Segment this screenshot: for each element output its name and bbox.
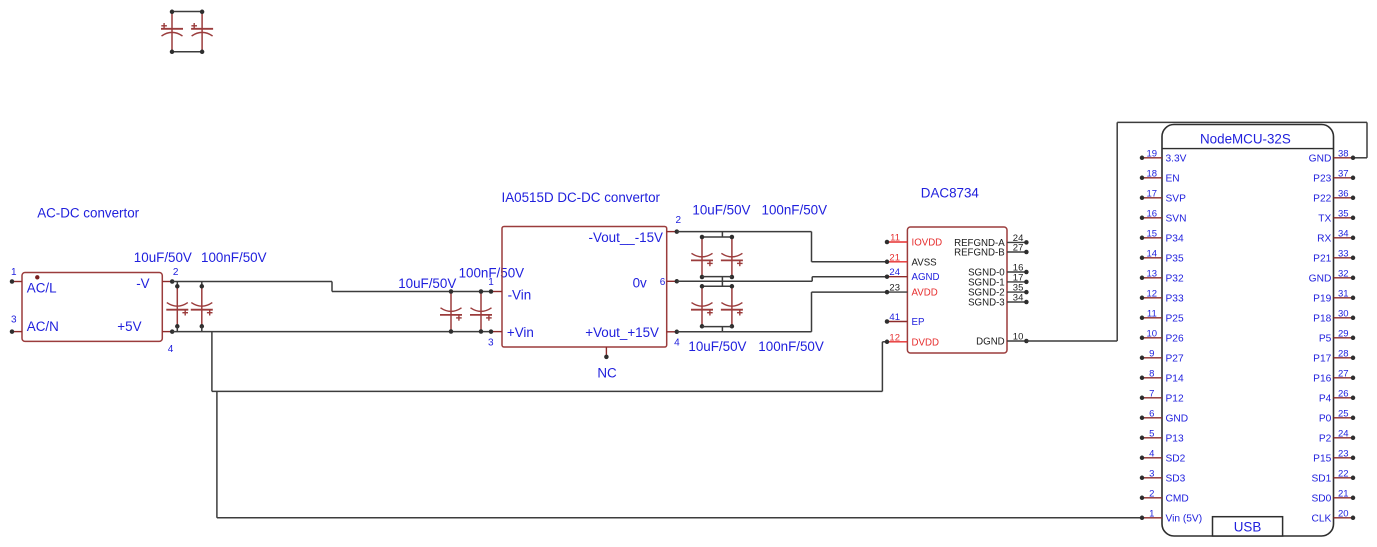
wire orphan bottom xyxy=(172,51,202,53)
svg-text:NodeMCU-32S: NodeMCU-32S xyxy=(1200,131,1291,146)
pin 23 P15 of U4 xyxy=(1313,448,1355,464)
capacitor C3 10uF/50V xyxy=(166,284,188,329)
svg-text:AVSS: AVSS xyxy=(912,257,938,268)
capacitor C7 10uF/50V xyxy=(691,235,713,280)
svg-text:11: 11 xyxy=(1147,308,1157,319)
wire net +5V bottom run xyxy=(212,390,883,392)
pin 11 IOVDD of U3 xyxy=(885,233,942,249)
wire C7/C8 bottom bus xyxy=(702,276,732,278)
svg-text:12: 12 xyxy=(1147,288,1158,299)
svg-text:25: 25 xyxy=(1338,408,1349,419)
pin 27 REFGND-B of U3 xyxy=(954,243,1029,259)
pin 16 SVN of U4 xyxy=(1140,208,1187,224)
pin 30 P18 of U4 xyxy=(1313,308,1355,324)
svg-text:6: 6 xyxy=(1149,408,1154,419)
DC-DC convertor U2 box xyxy=(502,227,667,348)
wire net -15V drop xyxy=(811,232,813,262)
svg-text:34: 34 xyxy=(1013,293,1024,304)
svg-text:AC/N: AC/N xyxy=(27,319,59,334)
svg-text:USB: USB xyxy=(1234,519,1262,534)
svg-text:3: 3 xyxy=(488,338,494,349)
wire net DGND top run xyxy=(1117,121,1367,123)
svg-text:IOVDD: IOVDD xyxy=(912,238,943,249)
svg-text:2: 2 xyxy=(1149,488,1154,499)
wire net -15V run xyxy=(677,231,812,233)
svg-text:10: 10 xyxy=(1147,328,1158,339)
svg-text:38: 38 xyxy=(1338,148,1349,159)
svg-text:RX: RX xyxy=(1317,233,1331,244)
pin 35 SGND-2 of U3 xyxy=(968,283,1029,299)
capacitor C10 100nF/50V xyxy=(721,284,743,329)
svg-text:DAC8734: DAC8734 xyxy=(921,186,980,201)
capacitor C9 10uF/50V xyxy=(691,284,713,329)
svg-text:37: 37 xyxy=(1338,168,1349,179)
svg-text:EN: EN xyxy=(1166,173,1180,184)
pin 10 P26 of U4 xyxy=(1140,328,1184,344)
pin 24 REFGND-A of U3 xyxy=(954,233,1029,249)
svg-text:P22: P22 xyxy=(1313,193,1331,204)
svg-text:24: 24 xyxy=(1338,428,1349,439)
svg-text:27: 27 xyxy=(1013,243,1024,254)
pin 4 SD2 of U4 xyxy=(1140,448,1186,464)
wire net +5V rail xyxy=(172,331,491,333)
svg-text:Vin (5V): Vin (5V) xyxy=(1166,513,1203,524)
svg-text:SVP: SVP xyxy=(1166,193,1187,204)
pin 25 P0 of U4 xyxy=(1319,408,1355,424)
svg-text:1: 1 xyxy=(11,267,17,278)
USB connector box of U4 xyxy=(1213,517,1283,536)
svg-text:P32: P32 xyxy=(1166,273,1184,284)
svg-text:SD0: SD0 xyxy=(1311,493,1331,504)
svg-text:AC-DC convertor: AC-DC convertor xyxy=(37,205,139,220)
wire net +15V run xyxy=(677,331,812,333)
svg-text:P15: P15 xyxy=(1313,453,1331,464)
svg-text:34: 34 xyxy=(1338,228,1349,239)
svg-text:27: 27 xyxy=(1338,368,1349,379)
svg-text:DVDD: DVDD xyxy=(912,337,939,348)
svg-text:5: 5 xyxy=(1149,428,1154,439)
svg-text:18: 18 xyxy=(1147,168,1158,179)
svg-text:11: 11 xyxy=(890,233,900,244)
svg-text:41: 41 xyxy=(889,312,900,323)
wire net +5V drop xyxy=(211,332,213,392)
svg-text:3.3V: 3.3V xyxy=(1166,153,1187,164)
wire C7/C8 top tick xyxy=(721,232,723,237)
pin 2 CMD of U4 xyxy=(1140,488,1189,504)
svg-text:17: 17 xyxy=(1147,188,1158,199)
svg-text:28: 28 xyxy=(1338,348,1349,359)
svg-text:P34: P34 xyxy=(1166,233,1184,244)
pin 28 P17 of U4 xyxy=(1313,348,1355,364)
svg-text:2: 2 xyxy=(173,267,179,278)
svg-text:SD2: SD2 xyxy=(1166,453,1186,464)
wire C4 top tick xyxy=(201,282,203,287)
pin 27 P16 of U4 xyxy=(1313,368,1355,384)
svg-text:2: 2 xyxy=(676,215,682,226)
pin 14 P35 of U4 xyxy=(1140,248,1184,264)
svg-text:-V: -V xyxy=(136,276,149,291)
svg-text:24: 24 xyxy=(889,267,900,278)
svg-text:REFGND-B: REFGND-B xyxy=(954,248,1005,259)
svg-text:GND: GND xyxy=(1309,273,1332,284)
wire C7/C8 bottom tick xyxy=(721,277,723,282)
pin 10 DGND of U3 xyxy=(976,332,1028,348)
pin 16 SGND-0 of U3 xyxy=(968,263,1029,279)
svg-text:4: 4 xyxy=(1149,448,1154,459)
svg-text:P21: P21 xyxy=(1313,253,1331,264)
svg-text:100nF/50V: 100nF/50V xyxy=(201,250,267,265)
svg-text:32: 32 xyxy=(1338,268,1349,279)
svg-text:9: 9 xyxy=(1149,348,1154,359)
DAC8734 U3 box xyxy=(907,227,1007,353)
wire net +5V into DVDD xyxy=(882,341,887,343)
svg-text:P16: P16 xyxy=(1313,373,1331,384)
pin 13 P32 of U4 xyxy=(1140,268,1184,284)
svg-text:P5: P5 xyxy=(1319,333,1332,344)
svg-text:7: 7 xyxy=(1149,388,1154,399)
wire net DGND run xyxy=(1026,340,1117,342)
NodeMCU-32S U4 box xyxy=(1162,125,1334,537)
svg-text:26: 26 xyxy=(1338,388,1349,399)
pin 23 AVDD of U3 xyxy=(885,283,938,299)
svg-text:10: 10 xyxy=(1013,332,1024,343)
pin 37 P23 of U4 xyxy=(1313,168,1355,184)
svg-text:-Vout__-15V: -Vout__-15V xyxy=(589,230,664,245)
svg-text:P14: P14 xyxy=(1166,373,1184,384)
capacitor C6 100nF/50V xyxy=(470,289,492,334)
pin 1 AC/L of U1 xyxy=(10,267,57,296)
wire C3 bottom tick xyxy=(176,326,178,331)
capacitor C2 (orphan right) xyxy=(191,10,213,55)
pin 18 EN of U4 xyxy=(1140,168,1180,184)
pin 17 SVP of U4 xyxy=(1140,188,1186,204)
svg-text:CLK: CLK xyxy=(1311,513,1331,524)
pin 3 SD3 of U4 xyxy=(1140,468,1186,484)
svg-text:8: 8 xyxy=(1149,368,1154,379)
pin 12 DVDD of U3 xyxy=(885,332,939,348)
pin 35 TX of U4 xyxy=(1318,208,1355,224)
svg-text:0v: 0v xyxy=(633,276,647,291)
pin 36 P22 of U4 xyxy=(1313,188,1355,204)
capacitor C4 100nF/50V xyxy=(191,284,213,329)
svg-text:P0: P0 xyxy=(1319,413,1332,424)
pin 5 P13 of U4 xyxy=(1140,428,1184,444)
svg-text:P33: P33 xyxy=(1166,293,1184,304)
wire C9/C10 top tick xyxy=(721,281,723,286)
pin 31 P19 of U4 xyxy=(1313,288,1355,304)
wire net 0v jog xyxy=(811,277,813,282)
svg-text:13: 13 xyxy=(1147,268,1158,279)
wire net DGND right drop xyxy=(1366,122,1368,157)
pin 20 CLK of U4 xyxy=(1311,508,1355,524)
pin 11 P25 of U4 xyxy=(1140,308,1184,324)
svg-text:TX: TX xyxy=(1318,213,1331,224)
capacitor C8 100nF/50V xyxy=(721,235,743,280)
wire orphan top xyxy=(172,11,202,13)
wire net 0v to AGND xyxy=(812,276,887,278)
wire C4 bottom tick xyxy=(201,326,203,331)
svg-text:P17: P17 xyxy=(1313,353,1331,364)
svg-text:1: 1 xyxy=(1149,508,1154,519)
svg-text:-Vin: -Vin xyxy=(508,287,532,302)
svg-text:P27: P27 xyxy=(1166,353,1184,364)
svg-text:20: 20 xyxy=(1338,508,1349,519)
svg-text:P25: P25 xyxy=(1166,313,1184,324)
svg-text:3: 3 xyxy=(11,314,17,325)
svg-text:P19: P19 xyxy=(1313,293,1331,304)
svg-text:P13: P13 xyxy=(1166,433,1184,444)
svg-text:1: 1 xyxy=(488,277,494,288)
svg-text:P35: P35 xyxy=(1166,253,1184,264)
pin 6 0v of U2 xyxy=(633,276,679,291)
wire net Vin5V drop xyxy=(216,391,218,517)
svg-text:P26: P26 xyxy=(1166,333,1184,344)
svg-text:NC: NC xyxy=(597,365,617,380)
pin 4 +Vout of U2 xyxy=(585,325,680,348)
svg-text:22: 22 xyxy=(1338,468,1349,479)
svg-text:15: 15 xyxy=(1147,228,1158,239)
AC-DC convertor U1 box xyxy=(22,273,162,342)
pin 12 P33 of U4 xyxy=(1140,288,1184,304)
wire net DGND riser xyxy=(1116,122,1118,341)
wire C9/C10 top bus xyxy=(702,285,732,287)
svg-text:SD3: SD3 xyxy=(1166,473,1186,484)
svg-text:GND: GND xyxy=(1166,413,1189,424)
pin 17 SGND-1 of U3 xyxy=(968,272,1029,288)
wire net +15V rise xyxy=(811,292,813,332)
svg-text:21: 21 xyxy=(1338,488,1349,499)
wire net -V segment a xyxy=(172,281,332,283)
svg-text:SD1: SD1 xyxy=(1311,473,1331,484)
pin 24 AGND of U3 xyxy=(885,267,940,283)
pin 1 Vin (5V) of U4 xyxy=(1140,508,1202,524)
wire net -15V to AVSS xyxy=(812,261,888,263)
svg-text:6: 6 xyxy=(660,277,666,288)
wire C9/C10 bottom tick xyxy=(721,327,723,332)
pin 15 P34 of U4 xyxy=(1140,228,1184,244)
svg-text:3: 3 xyxy=(1149,468,1154,479)
svg-text:33: 33 xyxy=(1338,248,1349,259)
svg-text:DGND: DGND xyxy=(976,337,1005,348)
pin 38 GND of U4 xyxy=(1309,148,1356,164)
svg-text:29: 29 xyxy=(1338,328,1349,339)
svg-text:10uF/50V: 10uF/50V xyxy=(398,276,456,291)
pin 4 +5V of U1 xyxy=(117,319,174,355)
pin 1 -Vin of U2 xyxy=(488,277,531,302)
svg-text:100nF/50V: 100nF/50V xyxy=(762,203,828,218)
svg-text:+Vin: +Vin xyxy=(507,325,534,340)
svg-text:SVN: SVN xyxy=(1166,213,1187,224)
pin 6 GND of U4 xyxy=(1140,408,1188,424)
pin 24 P2 of U4 xyxy=(1319,428,1355,444)
svg-text:35: 35 xyxy=(1338,208,1349,219)
svg-text:36: 36 xyxy=(1338,188,1349,199)
svg-text:10uF/50V: 10uF/50V xyxy=(134,250,192,265)
pin 2 -V of U1 xyxy=(136,267,179,291)
svg-text:+Vout_+15V: +Vout_+15V xyxy=(585,325,659,340)
pin 26 P4 of U4 xyxy=(1319,388,1355,404)
svg-text:19: 19 xyxy=(1147,148,1158,159)
svg-text:P2: P2 xyxy=(1319,433,1332,444)
svg-text:CMD: CMD xyxy=(1166,493,1189,504)
svg-text:P23: P23 xyxy=(1313,173,1331,184)
wire net +15V to AVDD xyxy=(812,291,888,293)
pin NC of U2 xyxy=(597,347,617,380)
svg-text:+5V: +5V xyxy=(117,319,141,334)
wire C7/C8 top bus xyxy=(702,236,732,238)
wire net DGND into pin38 xyxy=(1353,157,1367,159)
svg-text:P12: P12 xyxy=(1166,393,1184,404)
svg-text:SGND-3: SGND-3 xyxy=(968,298,1005,309)
svg-text:23: 23 xyxy=(889,283,900,294)
svg-text:4: 4 xyxy=(674,338,680,349)
svg-text:10uF/50V: 10uF/50V xyxy=(688,339,746,354)
svg-text:AVDD: AVDD xyxy=(912,288,938,299)
svg-text:31: 31 xyxy=(1338,288,1349,299)
pin 41 EP of U3 xyxy=(885,312,925,328)
pin 34 RX of U4 xyxy=(1317,228,1355,244)
svg-text:P4: P4 xyxy=(1319,393,1332,404)
wire net Vin5V bottom run xyxy=(217,517,1142,519)
pin 21 SD0 of U4 xyxy=(1311,488,1355,504)
wire net 0v run xyxy=(677,280,812,282)
svg-text:4: 4 xyxy=(168,344,174,355)
pin 19 3.3V of U4 xyxy=(1140,148,1187,164)
pin 22 SD1 of U4 xyxy=(1311,468,1355,484)
pin 29 P5 of U4 xyxy=(1319,328,1355,344)
svg-text:EP: EP xyxy=(912,317,925,328)
pin 32 GND of U4 xyxy=(1309,268,1356,284)
U4 header separator xyxy=(1162,148,1334,150)
U1 pin-1 marker dot xyxy=(35,275,39,279)
pin 7 P12 of U4 xyxy=(1140,388,1184,404)
wire C9/C10 bottom bus xyxy=(702,326,732,328)
pin 9 P27 of U4 xyxy=(1140,348,1184,364)
svg-text:100nF/50V: 100nF/50V xyxy=(758,339,824,354)
svg-text:21: 21 xyxy=(889,252,900,263)
pin 21 AVSS of U3 xyxy=(885,252,937,268)
svg-text:AGND: AGND xyxy=(912,272,940,283)
svg-text:12: 12 xyxy=(889,332,900,343)
svg-text:P18: P18 xyxy=(1313,313,1331,324)
wire net -V segment b xyxy=(332,291,491,293)
svg-text:IA0515D DC-DC convertor: IA0515D DC-DC convertor xyxy=(502,190,661,205)
svg-text:30: 30 xyxy=(1338,308,1349,319)
svg-text:10uF/50V: 10uF/50V xyxy=(692,203,750,218)
pin 33 P21 of U4 xyxy=(1313,248,1355,264)
svg-text:14: 14 xyxy=(1147,248,1158,259)
pin 3 +Vin of U2 xyxy=(488,325,534,348)
wire net -V jog xyxy=(331,282,333,292)
capacitor C5 10uF/50V xyxy=(440,289,462,334)
svg-text:16: 16 xyxy=(1147,208,1158,219)
pin 3 AC/N of U1 xyxy=(10,314,59,334)
pin 2 -Vout of U2 xyxy=(589,215,682,245)
svg-text:AC/L: AC/L xyxy=(27,281,57,296)
wire net +5V riser to DVDD xyxy=(881,342,883,392)
wire C3 top tick xyxy=(176,282,178,287)
svg-text:GND: GND xyxy=(1309,153,1332,164)
pin 8 P14 of U4 xyxy=(1140,368,1184,384)
svg-text:23: 23 xyxy=(1338,448,1349,459)
capacitor C1 (orphan left) xyxy=(161,10,183,55)
pin 34 SGND-3 of U3 xyxy=(968,293,1029,309)
